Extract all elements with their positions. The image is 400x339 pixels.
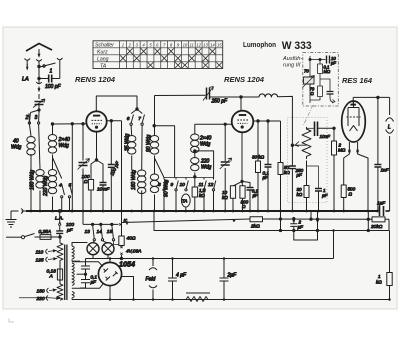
wire wiper down (291, 145, 293, 166)
svg-text:0,25A: 0,25A (39, 229, 52, 235)
svg-text:125: 125 (36, 258, 44, 264)
choke resistor in bottom rail (186, 292, 210, 294)
table column lines (126, 41, 215, 69)
tube2 grid wire + trimmer (224, 124, 226, 211)
svg-text:100: 100 (66, 222, 74, 228)
capacitor 4uF (168, 259, 177, 300)
svg-text:kΩ: kΩ (284, 170, 290, 175)
curved arrow in box (330, 94, 335, 103)
transformer primary upper (59, 237, 61, 243)
capacitor 100pF (39, 78, 60, 80)
line 2 (K rail) (122, 219, 390, 223)
capacitor 0.1uF cathode2 (247, 188, 254, 191)
coil 220 Wdg left (53, 155, 62, 179)
svg-text:Wdg: Wdg (11, 145, 22, 151)
svg-text:35 Wdg: 35 Wdg (125, 134, 131, 151)
switch 14 (101, 225, 103, 238)
svg-text:L: L (388, 125, 391, 131)
line 4 rail (86, 258, 334, 260)
dash-dot leader line (304, 105, 314, 125)
resistor 20k in line2 (372, 217, 385, 222)
capacitor 2uF mid (220, 259, 229, 300)
svg-text:100 pF: 100 pF (45, 84, 62, 90)
resistor 30k (257, 121, 259, 161)
svg-text:W 333: W 333 (282, 40, 312, 52)
tap 110 (48, 250, 57, 251)
switch 5 lower (70, 184, 73, 195)
antenna (26, 44, 52, 52)
wire tube1 top to switch fork (96, 96, 137, 112)
svg-text:2kΩ: 2kΩ (250, 224, 260, 230)
wire bus to line2 stub (310, 211, 312, 219)
svg-text:14: 14 (210, 43, 215, 48)
capacitor 10nF pot top (307, 127, 314, 129)
potentiometer zigzag (302, 127, 311, 159)
RF choke coil (259, 94, 278, 97)
svg-text:Ω: Ω (349, 192, 353, 197)
lamp 2 (103, 241, 108, 243)
antenna coupler cup (36, 59, 41, 84)
svg-text:10: 10 (180, 182, 186, 188)
resistor 2M (333, 128, 335, 141)
coil 90 Wdg lower (150, 174, 158, 193)
secondary HV (72, 263, 74, 285)
svg-text:1µF: 1µF (377, 201, 386, 206)
transformer primary lower (59, 280, 61, 284)
svg-text:250 pF: 250 pF (211, 99, 229, 105)
switch table (93, 41, 223, 69)
wire coil to right (278, 96, 293, 145)
resistor 10k (230, 186, 235, 199)
wire switch7 to coil F (141, 125, 143, 170)
svg-text:20kΩ: 20kΩ (370, 224, 383, 230)
svg-text:9: 9 (171, 182, 174, 188)
svg-text:15: 15 (217, 43, 222, 48)
svg-text:12: 12 (208, 182, 214, 188)
svg-text:kΩ: kΩ (222, 195, 228, 200)
junction dots on lower rails (233, 219, 236, 222)
fuse 0.13A (59, 262, 61, 269)
resistor 30k pot bottom (306, 161, 308, 186)
svg-text:TA: TA (182, 199, 188, 204)
rectifier tube 1054 (98, 262, 121, 285)
coil 160 Wdg left (39, 124, 40, 169)
capacitor 250pF grid (289, 166, 296, 169)
svg-text:220: 220 (36, 296, 45, 302)
svg-text:Lumophon: Lumophon (243, 42, 276, 49)
svg-text:1054: 1054 (119, 260, 136, 269)
svg-text:4 µF: 4 µF (176, 273, 187, 279)
switch 2 (29, 113, 31, 124)
coil 40 Wdg (29, 124, 31, 136)
junction antenna (38, 65, 40, 67)
capacitor 1uF in box (307, 166, 319, 189)
resistor 2k in line2 (250, 217, 263, 222)
capacitor 100pF anode (108, 165, 115, 168)
resistor 1k (389, 231, 391, 273)
switch 3 (38, 113, 40, 122)
dashed box Ausfuehrung III (303, 53, 339, 107)
pot wiper arrow (292, 142, 306, 147)
coil 2x40 Wdg left (52, 124, 54, 135)
svg-text:pF: pF (66, 228, 74, 234)
wire HV secondary to 1054 anodes (72, 262, 103, 267)
svg-text:8: 8 (158, 182, 161, 188)
svg-text:TA: TA (100, 64, 107, 70)
switch 8 (164, 178, 166, 189)
svg-text:30 kΩ: 30 kΩ (252, 155, 265, 160)
resistor 1.5k (192, 187, 198, 197)
tap 220 + mains line 2 (19, 297, 60, 300)
table column numbers (122, 43, 223, 48)
fan wire to band switches (164, 177, 214, 179)
fuse 0.25A (40, 235, 51, 240)
wire 250pF to coil (210, 96, 260, 98)
dotted box volume pot (288, 118, 328, 203)
tube 1 RENS1204 (86, 111, 106, 131)
svg-text:150: 150 (37, 289, 45, 295)
arrow to trimmer (38, 87, 40, 91)
coupling cup lower (36, 82, 41, 84)
svg-text:2: 2 (25, 115, 29, 121)
trimmer cap antenna (35, 102, 44, 105)
svg-text:1: 1 (122, 43, 124, 48)
svg-text:Kurz: Kurz (97, 50, 108, 56)
filament rail from tuning cap (83, 211, 119, 224)
svg-text:15: 15 (107, 229, 113, 235)
resistor 50k (280, 121, 282, 163)
svg-text:11: 11 (199, 182, 204, 188)
svg-text:kΩ: kΩ (297, 192, 303, 197)
arrow LA (26, 64, 28, 69)
svg-text:10nF: 10nF (320, 134, 332, 139)
wire sw15 to terminal (114, 241, 120, 245)
switch 9 (176, 178, 178, 189)
svg-text:2µF: 2µF (227, 273, 238, 279)
secondary filament (72, 243, 88, 247)
svg-text:RENS 1204: RENS 1204 (224, 75, 265, 84)
wire tube2 top (240, 97, 242, 111)
table X marks (120, 48, 222, 68)
svg-text:Feld: Feld (146, 277, 156, 283)
variable capacitor 250pF (207, 88, 210, 100)
socket right (57, 58, 63, 79)
svg-text:13: 13 (85, 229, 91, 235)
wire coil D to bus (52, 197, 54, 212)
svg-text:4V,06A: 4V,06A (126, 249, 141, 255)
svg-text:Wdg: Wdg (200, 142, 211, 148)
switch 6 (131, 115, 133, 123)
switch 13 (93, 225, 95, 238)
coil 35 Wdg (130, 125, 133, 135)
svg-text:1: 1 (378, 274, 381, 279)
svg-text:rung III: rung III (283, 63, 301, 69)
svg-text:1nF: 1nF (381, 168, 390, 173)
junction dots on chassis bus (30, 210, 33, 213)
svg-text:7: 7 (138, 116, 141, 122)
switch 12 (214, 178, 216, 189)
loudspeaker terminal L (389, 97, 391, 115)
wire U shape (294, 211, 318, 240)
resistor 40 ohm (121, 223, 123, 237)
bus junction dots (30, 210, 379, 213)
svg-text:11: 11 (190, 43, 194, 48)
socket left (25, 59, 31, 67)
svg-text:Ω: Ω (84, 179, 88, 185)
field coil Feld (152, 259, 154, 267)
wire bus to line3 right (367, 211, 369, 231)
tube2 cathode network (233, 132, 250, 187)
svg-text:µF: µF (253, 193, 258, 198)
resistor 100 ohm (88, 180, 93, 191)
line 5 bottom rail (72, 299, 390, 301)
svg-text:3: 3 (35, 115, 38, 121)
wire coil A to bus (30, 154, 32, 211)
K arrow (126, 220, 129, 225)
svg-text:12: 12 (196, 43, 201, 48)
tube 3 RES164 top lead (353, 97, 389, 104)
capacitor 10nF cathode (100, 183, 107, 186)
resistor 300 ohm (240, 186, 245, 199)
wire vert 333.5 (333, 231, 335, 259)
capacitor 1uF series in bus (380, 206, 384, 216)
svg-text:kΩ: kΩ (376, 280, 382, 285)
svg-text:MΩ: MΩ (324, 69, 331, 74)
main chassis bus (26, 210, 378, 212)
mains lead-in (6, 236, 21, 238)
svg-text:4: 4 (59, 183, 62, 189)
capacitor 2uF right (290, 219, 297, 231)
tube3 legs (344, 142, 350, 185)
coil 160 Wdg mid (138, 170, 146, 194)
capacitor 0.1uF coupling (267, 121, 269, 165)
svg-text:10 nF: 10 nF (97, 187, 110, 193)
svg-text:Wdg: Wdg (201, 165, 212, 171)
transformer core (65, 245, 67, 301)
svg-text:5: 5 (69, 183, 72, 189)
svg-text:pF: pF (330, 61, 336, 66)
svg-text:10: 10 (183, 43, 188, 48)
coil 2x40 Wdg mid (194, 124, 196, 134)
coil 90 Wdg (154, 96, 156, 136)
ground (11, 211, 19, 220)
svg-text:1: 1 (50, 69, 53, 75)
switch 15 (112, 225, 114, 238)
bus plug left (21, 209, 26, 214)
svg-text:90 Wdg: 90 Wdg (146, 135, 152, 152)
svg-text:220 Wdg: 220 Wdg (43, 176, 49, 197)
svg-text:Wdg: Wdg (59, 143, 70, 149)
svg-text:RENS 1204: RENS 1204 (75, 75, 116, 84)
svg-text:MΩ: MΩ (338, 148, 346, 153)
svg-text:Ausfüh-: Ausfüh- (282, 56, 302, 62)
svg-text:160 Wdg: 160 Wdg (30, 170, 36, 190)
tap 125 (48, 258, 57, 259)
x terminals 4V (120, 246, 122, 255)
wire coil B to bus (39, 191, 41, 212)
svg-text:13: 13 (203, 43, 208, 48)
coil 220 Wdg mid (191, 158, 199, 171)
svg-text:14: 14 (97, 229, 103, 235)
svg-text:A: A (49, 274, 53, 280)
tube1 cathode wire (91, 132, 103, 182)
dots bottom rails (109, 219, 391, 301)
line 3 (154, 211, 389, 231)
wire line y91.5 to 250pF (155, 94, 206, 96)
junction under trimmer (38, 109, 40, 111)
switch 1 (40, 63, 56, 67)
tuning capacitor C1 (82, 124, 84, 211)
terminal x K (119, 223, 121, 225)
switch 10 + oval 7A (186, 178, 188, 189)
svg-text:LA: LA (22, 77, 29, 83)
svg-text:110: 110 (36, 250, 44, 256)
svg-text:6: 6 (127, 116, 130, 122)
svg-text:RES 164: RES 164 (342, 76, 373, 85)
mains switch (21, 236, 24, 239)
tube 2 RENS1204 (232, 111, 254, 133)
resistor 0.1M in box (319, 60, 321, 65)
antenna lead arrow (38, 49, 40, 56)
resistor 500 ohm (341, 185, 346, 198)
switch 11 (204, 178, 206, 189)
svg-text:L.A.: L.A. (55, 216, 64, 222)
capacitor 10pF in box (327, 56, 330, 64)
secondary LV bottom (72, 292, 74, 300)
wire tube1 plate right (106, 121, 121, 223)
wire in box vertical (309, 56, 311, 103)
caps 0.1uF pair (80, 259, 90, 289)
lamp 1 (93, 241, 94, 243)
switch fork junction (136, 108, 138, 110)
switch 4 lower (71, 124, 73, 211)
pot small in box (304, 77, 315, 84)
L.A. terminal and 100pF (58, 211, 61, 231)
tap 150 (49, 289, 57, 292)
svg-text:Lang: Lang (97, 57, 109, 63)
wire top row to tube1 (53, 123, 87, 125)
tube2 plate network wire (253, 120, 281, 122)
wire split to switches (31, 110, 40, 113)
switch 7 (142, 115, 144, 123)
svg-text:70: 70 (304, 69, 309, 74)
stray pencil mark (9, 319, 14, 323)
capacitor in box lower (320, 79, 330, 92)
svg-text:40Ω: 40Ω (127, 236, 136, 242)
resistor 70 ohm in box (319, 74, 321, 87)
svg-text:160 Wdg: 160 Wdg (131, 170, 137, 190)
capacitor 1nF (377, 97, 379, 164)
svg-text:Schalter: Schalter (95, 42, 114, 48)
